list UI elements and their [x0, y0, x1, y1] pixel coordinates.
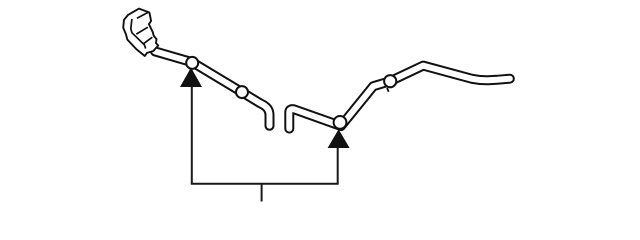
connector mid hatch — [136, 27, 148, 34]
leader line left vertical — [191, 80, 193, 184]
clamp tick below clamp D — [387, 88, 389, 92]
leader line horizontal bracket — [191, 183, 339, 185]
clamp circle B — [236, 86, 248, 98]
connector lower hatch — [144, 37, 153, 43]
arrow 2 — [328, 129, 350, 148]
hose piece 1 outer outline — [155, 51, 270, 125]
hose piece 1 inner white — [155, 51, 270, 125]
clamp circle A — [186, 57, 198, 69]
connector fitting body — [123, 9, 158, 56]
hose piece 2 outer outline — [289, 66, 510, 129]
leader line right vertical — [337, 138, 339, 184]
connector inner face line — [131, 19, 146, 49]
hose piece 2 inner white — [289, 66, 510, 129]
leader stub to label — [261, 184, 263, 202]
arrow 1 — [180, 68, 202, 88]
clamp circle C — [334, 116, 347, 129]
clamp circle D — [384, 75, 396, 87]
connector top hatch — [137, 12, 148, 18]
